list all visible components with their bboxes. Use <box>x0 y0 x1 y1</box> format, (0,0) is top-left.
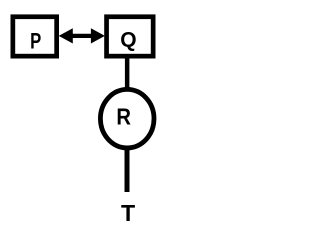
double-headed arrow between P and Q <box>59 28 105 43</box>
label P <box>30 29 41 54</box>
label T <box>121 200 135 226</box>
svg-text:Q: Q <box>120 28 136 51</box>
wire R to T <box>125 148 130 192</box>
label R <box>116 103 131 130</box>
box P <box>13 17 57 56</box>
svg-text:R: R <box>116 103 131 130</box>
circle R <box>100 89 154 147</box>
box Q <box>107 17 154 56</box>
svg-text:T: T <box>121 200 135 226</box>
wire Q to R <box>125 59 130 90</box>
svg-text:P: P <box>30 29 41 54</box>
label Q <box>120 28 136 51</box>
